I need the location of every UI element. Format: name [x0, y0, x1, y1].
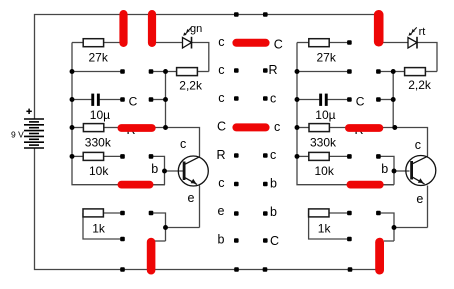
- svg-text:rt: rt: [419, 26, 426, 38]
- svg-text:e: e: [218, 204, 225, 218]
- svg-text:1k: 1k: [318, 222, 332, 236]
- svg-text:c: c: [218, 35, 224, 49]
- svg-text:c: c: [274, 120, 280, 134]
- svg-text:10k: 10k: [315, 164, 335, 178]
- svg-text:C: C: [129, 95, 138, 109]
- svg-text:27k: 27k: [89, 50, 109, 64]
- svg-text:c: c: [218, 176, 224, 190]
- svg-text:c: c: [270, 91, 276, 105]
- svg-text:gn: gn: [190, 23, 202, 35]
- svg-text:1k: 1k: [92, 222, 106, 236]
- svg-text:c: c: [180, 137, 186, 151]
- svg-text:b: b: [270, 176, 277, 190]
- svg-text:27k: 27k: [317, 50, 337, 64]
- svg-text:R: R: [269, 63, 278, 77]
- svg-text:C: C: [356, 95, 365, 109]
- svg-text:R: R: [216, 148, 225, 162]
- svg-text:2,2k: 2,2k: [408, 78, 432, 92]
- svg-text:c: c: [415, 138, 421, 152]
- svg-text:C: C: [270, 234, 279, 248]
- svg-text:330k: 330k: [85, 136, 112, 150]
- svg-text:10k: 10k: [89, 164, 109, 178]
- svg-text:e: e: [416, 192, 423, 206]
- svg-text:c: c: [218, 91, 224, 105]
- svg-text:b: b: [270, 205, 277, 219]
- svg-text:c: c: [270, 148, 276, 162]
- svg-text:10µ: 10µ: [315, 108, 335, 122]
- svg-text:9 V: 9 V: [11, 130, 24, 140]
- svg-text:330k: 330k: [310, 136, 337, 150]
- svg-text:b: b: [218, 233, 225, 247]
- svg-text:C: C: [217, 120, 226, 134]
- svg-text:b: b: [381, 162, 388, 176]
- svg-text:2,2k: 2,2k: [179, 78, 203, 92]
- svg-text:10µ: 10µ: [90, 108, 110, 122]
- svg-text:b: b: [151, 162, 158, 176]
- svg-text:c: c: [218, 63, 224, 77]
- svg-text:C: C: [274, 37, 283, 51]
- svg-text:e: e: [188, 191, 195, 205]
